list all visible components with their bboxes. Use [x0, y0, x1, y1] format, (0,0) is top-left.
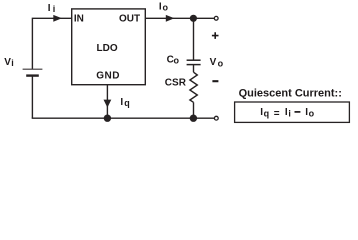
svg-text:Quiescent Current::: Quiescent Current:: — [239, 88, 342, 100]
junction node GND at ground rail — [104, 115, 111, 122]
svg-text:i: i — [53, 4, 56, 14]
current arrow Iq (down) — [104, 100, 112, 108]
wire output node down to capacitor Co — [193, 18, 195, 59]
wire output node to top terminal — [193, 17, 214, 19]
wire left rail below battery — [31, 76, 33, 119]
svg-text:IN: IN — [74, 13, 84, 24]
svg-text:OUT: OUT — [119, 13, 140, 24]
terminal Vo+ open circle — [214, 16, 218, 20]
battery V I long plate — [23, 68, 43, 70]
junction node output bottom — [190, 115, 197, 122]
svg-text:o: o — [309, 108, 315, 118]
svg-text:CSR: CSR — [165, 77, 187, 88]
terminal Vo- open circle — [214, 116, 218, 120]
wire top-left rail (battery to IN) — [32, 18, 71, 69]
svg-text:I: I — [48, 3, 51, 14]
battery V I short plate — [26, 74, 39, 76]
svg-text:GND: GND — [96, 71, 120, 82]
svg-text:i: i — [288, 108, 291, 118]
svg-text:o: o — [163, 3, 169, 13]
wire bottom node to bottom terminal — [193, 117, 214, 119]
svg-text:o: o — [174, 56, 180, 66]
current arrow Io — [166, 15, 175, 22]
wire OUT to output node — [145, 17, 193, 19]
svg-text:q: q — [264, 108, 270, 118]
polarity minus sign — [212, 80, 218, 82]
resistor CSR zigzag — [190, 72, 197, 102]
equation box — [235, 102, 350, 122]
svg-text:V: V — [210, 57, 217, 68]
LDO regulator box U1 — [72, 9, 146, 85]
capacitor Co bottom plate — [187, 64, 201, 66]
svg-text:i: i — [11, 58, 14, 68]
polarity plus sign — [212, 32, 219, 39]
svg-text:LDO: LDO — [97, 43, 118, 54]
capacitor Co top plate — [187, 59, 201, 61]
wire GND pin down to ground rail — [106, 85, 108, 119]
svg-text:o: o — [218, 58, 224, 68]
svg-text:q: q — [124, 98, 130, 108]
svg-text:I: I — [120, 97, 123, 108]
junction node at output top — [190, 15, 197, 22]
wire bottom ground rail — [32, 117, 194, 119]
svg-text:I: I — [159, 1, 162, 12]
wire resistor CSR to bottom node — [193, 102, 195, 118]
wire capacitor Co to resistor CSR — [193, 65, 195, 72]
current arrow Ii — [53, 15, 62, 22]
svg-text:=: = — [274, 108, 280, 119]
